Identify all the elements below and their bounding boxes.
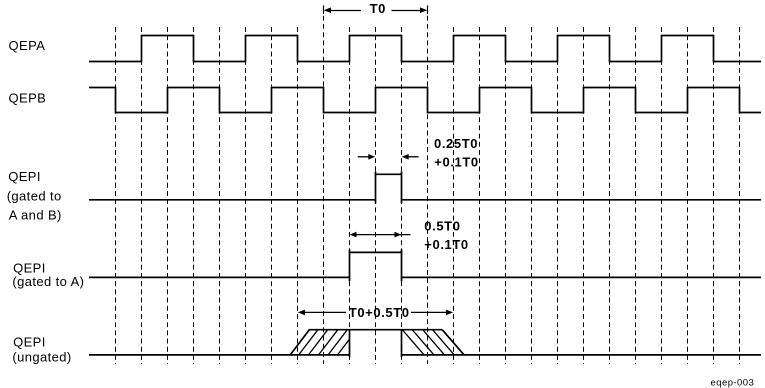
waveform QEPI gated to A and B — [89, 172, 761, 204]
svg-text:QEPB: QEPB — [9, 90, 47, 105]
QEPI (gated to A) label — [12, 261, 84, 290]
svg-text:0.25T0: 0.25T0 — [434, 136, 478, 151]
tall dashed measurement boundary lines at T0 span — [324, 6, 428, 365]
QEPI (gated to A and B) label — [7, 169, 62, 222]
waveform QEPA — [89, 36, 761, 62]
hatching of falling-edge uncertainty region — [402, 330, 454, 355]
svg-text:QEPI: QEPI — [8, 169, 41, 184]
0.5T0 dimension arrow — [350, 232, 411, 238]
waveform QEPI ungated — [89, 330, 761, 357]
waveform QEPB — [89, 88, 761, 113]
waveform QEPI gated to A — [89, 249, 761, 281]
svg-text:+0.1T0: +0.1T0 — [424, 237, 468, 252]
0.25T0 dimension arrows — [358, 154, 419, 160]
T0 dimension arrow — [324, 7, 427, 13]
svg-text:(ungated): (ungated) — [12, 350, 71, 365]
svg-text:QEPI: QEPI — [13, 335, 46, 350]
svg-text:QEPA: QEPA — [9, 38, 46, 53]
hatching of rising-edge uncertainty region — [299, 330, 350, 355]
svg-text:T0: T0 — [370, 1, 386, 16]
svg-text:(gated to: (gated to — [7, 189, 62, 204]
svg-text:(gated to A): (gated to A) — [12, 274, 84, 289]
svg-text:+0.1T0: +0.1T0 — [434, 154, 478, 169]
svg-text:eqep-003: eqep-003 — [711, 377, 755, 388]
T0+0.5T0 dimension arrow — [298, 310, 453, 316]
QEPI (ungated) label — [12, 335, 71, 365]
dashed grid lines — [116, 27, 740, 364]
svg-text:0.5T0: 0.5T0 — [424, 219, 460, 234]
svg-text:T0+0.5T0: T0+0.5T0 — [349, 305, 410, 320]
svg-text:A and B): A and B) — [9, 207, 62, 222]
